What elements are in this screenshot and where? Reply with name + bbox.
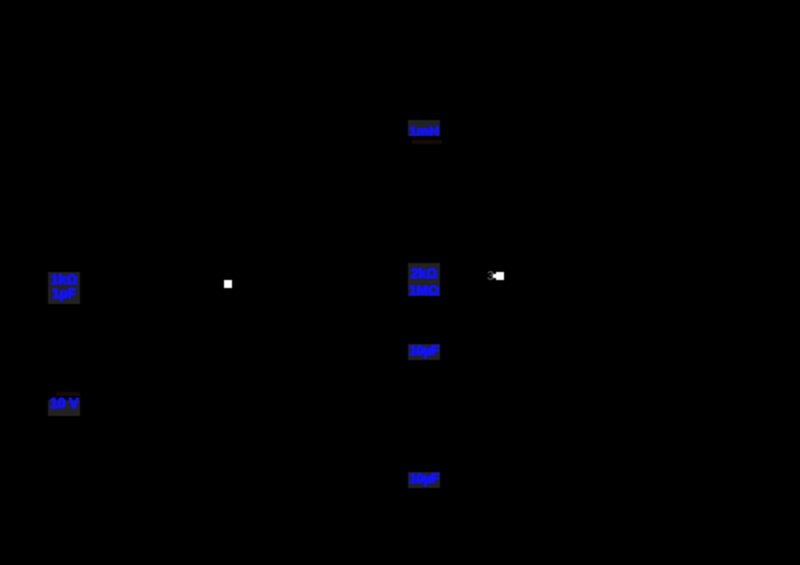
pin number 3 glyph: [486, 268, 498, 282]
wire post handle (node B): [496, 272, 504, 280]
voltage source V1 name label (faint): [56, 392, 80, 396]
resistor R1 name label: [48, 272, 80, 304]
wire post handle (node A): [224, 280, 232, 288]
inductor L1 value label: [408, 120, 440, 136]
capacitor C2 value label: [408, 472, 440, 488]
inductor L1 name label (faint): [412, 140, 442, 144]
resistor R2 value label: [408, 263, 440, 296]
voltage source V1 box: [48, 400, 80, 416]
voltage source V1 value label: [48, 397, 80, 411]
wire stub into node B: [493, 274, 496, 278]
capacitor C1 value label: [408, 344, 440, 360]
